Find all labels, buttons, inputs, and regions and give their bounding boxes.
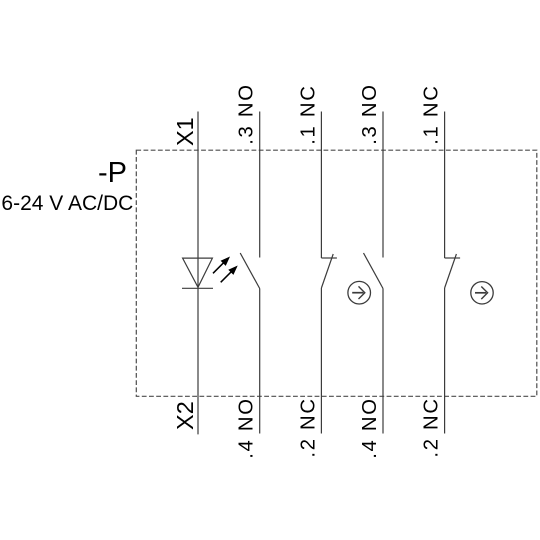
contact 4 actuator circle with arrow [471,282,493,304]
LED emission arrow 2 [221,267,237,282]
contact 4 NC stop bar [445,257,461,259]
contact 1 NO top wire (.3) [259,112,261,258]
contact 2 NC top wire (.1) [320,112,322,259]
contact 4 NC top wire (.1) [444,112,446,259]
enclosure dashed outline [136,150,537,396]
svg-text:X2: X2 [172,401,198,430]
svg-text:-P: -P [98,157,127,189]
contact 4 NC bottom wire (.2) [444,288,446,434]
contact 3 actuator circle with arrow [348,281,371,304]
svg-text:.3 NO: .3 NO [236,83,258,144]
wire LED to X2 [197,288,199,434]
LED -P diode triangle [183,258,213,287]
contact 2 NC bottom wire (.2) [320,288,322,434]
contact 4 NC moving blade [445,254,457,288]
contact 1 NO bottom wire (.4) [259,289,261,434]
contact 2 NC stop bar [321,257,337,259]
contact 3 NO moving blade [364,253,384,289]
contact 3 NO bottom wire (.4) [382,289,384,434]
contact 2 NC moving blade [321,254,333,288]
svg-text:.2 NC: .2 NC [421,397,443,457]
contact 1 NO moving blade [240,253,260,289]
LED emission arrow 1 [213,258,229,273]
contact 3 NO top wire (.3) [382,112,384,258]
svg-text:.4 NO: .4 NO [359,397,381,458]
wire X1 to LED [197,112,199,289]
svg-text:6-24 V AC/DC: 6-24 V AC/DC [1,192,133,215]
svg-text:.1 NC: .1 NC [297,84,319,144]
svg-text:.1 NC: .1 NC [421,84,443,144]
svg-text:.4 NO: .4 NO [236,397,258,458]
svg-text:.3 NO: .3 NO [359,83,381,144]
svg-text:.2 NC: .2 NC [297,397,319,457]
LED cathode bar [182,287,213,289]
svg-text:X1: X1 [172,117,198,146]
